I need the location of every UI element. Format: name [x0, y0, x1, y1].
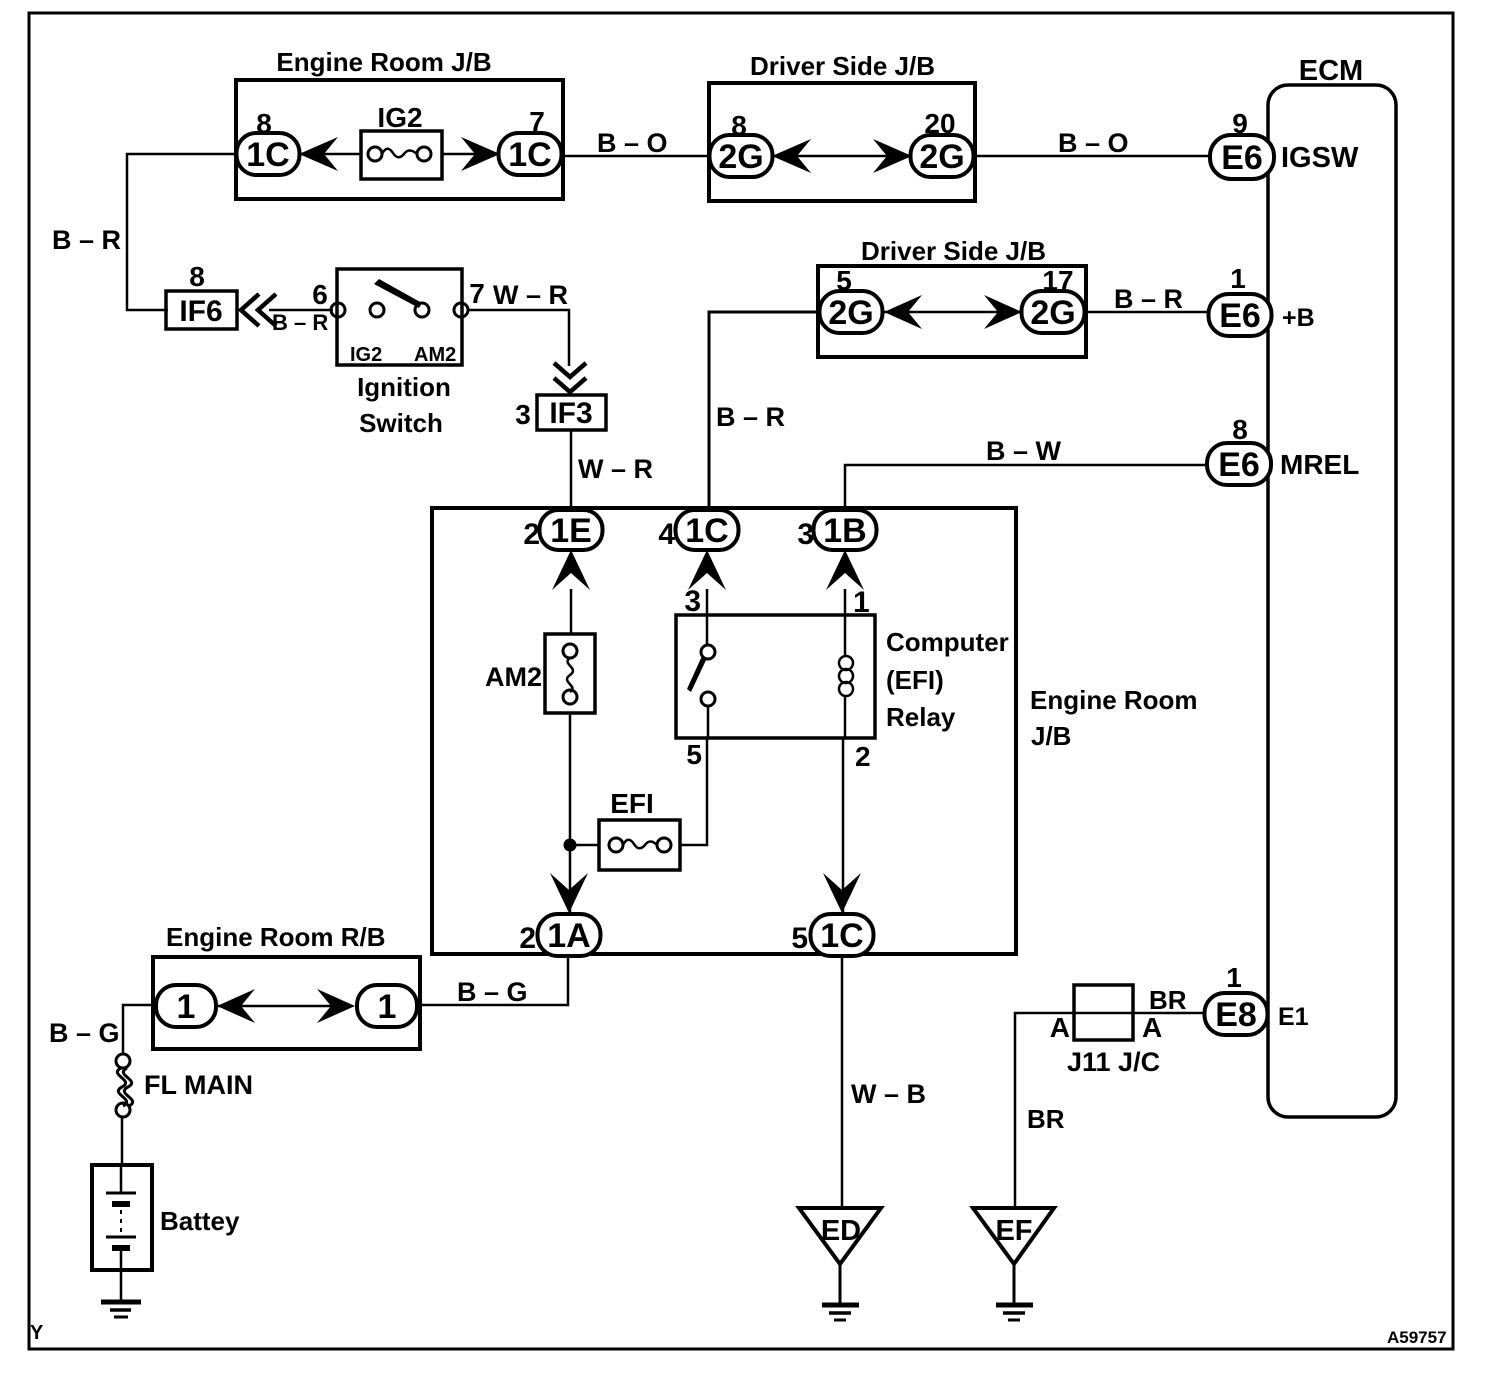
wire: FL MAIN to battery: [121, 1117, 124, 1165]
svg-text:1C: 1C: [246, 136, 289, 174]
ground (battery): [101, 1302, 141, 1317]
svg-text:4: 4: [658, 518, 675, 551]
svg-text:5: 5: [686, 739, 702, 770]
junction connector J11 J/C: [1050, 985, 1187, 1077]
svg-text:5: 5: [836, 265, 852, 296]
connector oval E6 pin 8 (MREL): [1207, 414, 1359, 485]
wire: relay pin 2 down to 1C: [842, 738, 845, 912]
svg-text:1: 1: [1230, 263, 1246, 294]
svg-text:E1: E1: [1278, 1003, 1309, 1031]
arrow (right) R/B: [317, 989, 355, 1023]
arrow (left) R/B: [217, 989, 255, 1023]
connector oval 1 (R/B left): [156, 985, 216, 1027]
svg-text:FL MAIN: FL MAIN: [144, 1070, 253, 1100]
svg-text:B – O: B – O: [597, 128, 668, 158]
svg-text:1A: 1A: [547, 917, 590, 955]
arrow down into 1A: [550, 873, 588, 913]
junction block: Driver Side J/B (middle): [818, 236, 1086, 357]
svg-text:B – W: B – W: [986, 436, 1062, 466]
connector oval E8 pin 1 (E1): [1205, 962, 1309, 1035]
svg-text:Y: Y: [30, 1322, 44, 1344]
junction block: Driver Side J/B (top): [709, 51, 975, 201]
connector oval E6 pin 9 (IGSW): [1210, 108, 1359, 179]
svg-text:2G: 2G: [718, 138, 763, 176]
wire: R/B left oval to FL MAIN: [123, 1005, 157, 1054]
connector oval 1A pin 2: [519, 914, 600, 956]
connector IF3 (terminal 3): [515, 395, 606, 430]
svg-text:EFI: EFI: [610, 788, 654, 819]
svg-text:8: 8: [256, 108, 272, 139]
arrow up into 1E: [552, 550, 590, 590]
wire: EFI to relay pin 5: [680, 738, 707, 845]
junction node (dot): [564, 839, 577, 852]
arrow (left) Driver Side J/B middle: [884, 295, 922, 329]
connector oval 1C pin 4: [658, 510, 738, 551]
connector oval 2G pin 17: [1022, 265, 1085, 333]
svg-text:1B: 1B: [823, 512, 866, 550]
connector IF6 (fuse block terminal 8): [166, 261, 237, 329]
ignition switch: [331, 269, 468, 438]
svg-text:Driver Side J/B: Driver Side J/B: [861, 236, 1046, 266]
svg-text:W – R: W – R: [578, 454, 653, 484]
svg-text:5: 5: [791, 922, 808, 955]
svg-text:Relay: Relay: [886, 702, 956, 732]
svg-text:8: 8: [1232, 414, 1248, 445]
svg-text:Engine Room J/B: Engine Room J/B: [276, 47, 491, 77]
svg-text:2: 2: [519, 922, 536, 955]
svg-text:IG2: IG2: [350, 344, 382, 366]
svg-text:7: 7: [469, 278, 485, 309]
svg-text:BR: BR: [1027, 1104, 1065, 1134]
svg-text:3: 3: [684, 585, 701, 618]
svg-text:2: 2: [855, 741, 871, 772]
connector oval 1E pin 2: [523, 510, 602, 551]
relay: Computer (EFI) Relay: [676, 585, 1009, 772]
junction block: Engine Room J/B (large, middle): [432, 508, 1198, 954]
double chevron arrows at IF6: [241, 294, 276, 326]
svg-text:7: 7: [529, 106, 545, 137]
svg-text:2: 2: [523, 518, 540, 551]
svg-text:1: 1: [177, 988, 196, 1026]
wire W-B: 1C(5) down to ED: [841, 955, 844, 1208]
svg-text:J/B: J/B: [1031, 721, 1071, 751]
svg-text:IF3: IF3: [549, 397, 592, 430]
ground triangle ED: [799, 1208, 881, 1320]
svg-text:J11 J/C: J11 J/C: [1067, 1047, 1160, 1077]
svg-text:2G: 2G: [1030, 294, 1075, 332]
wire between ovals (R/B): [215, 1005, 346, 1008]
svg-text:MREL: MREL: [1280, 449, 1359, 480]
wire between 2G ovals (middle Driver Side J/B): [882, 311, 1021, 314]
ground triangle EF: [973, 1208, 1054, 1320]
svg-text:B – R: B – R: [716, 402, 785, 432]
wire B-W: MREL to relay coil 1B: [845, 465, 1208, 512]
fuse AM2: [485, 634, 595, 713]
arrow down into 1C (bottom): [823, 873, 861, 913]
svg-text:EF: EF: [995, 1215, 1032, 1247]
svg-text:1: 1: [853, 586, 870, 619]
arrow up into 1B: [826, 550, 864, 590]
svg-text:Driver Side J/B: Driver Side J/B: [750, 51, 935, 81]
arrow (left) Driver Side J/B top: [772, 139, 811, 173]
wire B-O: 1C(7) to Driver Side J/B 2G(8): [561, 155, 711, 158]
wire: junction to fuse EFI: [570, 844, 599, 847]
wire BR: EF up to J11 J/C: [1015, 1013, 1074, 1207]
svg-text:W – R: W – R: [493, 280, 568, 310]
svg-text:2G: 2G: [919, 138, 964, 176]
wire: AM2 down to junction, down to 1A: [569, 713, 572, 912]
svg-text:1C: 1C: [508, 136, 551, 174]
svg-text:E6: E6: [1221, 139, 1263, 177]
svg-text:B – G: B – G: [457, 977, 528, 1007]
svg-text:1E: 1E: [550, 512, 592, 550]
svg-text:Switch: Switch: [359, 408, 443, 438]
svg-text:Computer: Computer: [886, 627, 1009, 657]
svg-text:3: 3: [515, 399, 531, 430]
fuse IG2: [361, 102, 442, 179]
svg-text:8: 8: [731, 110, 747, 141]
connector oval 2G pin 8: [710, 110, 773, 177]
wire: 1E down to fuse AM2: [570, 589, 573, 634]
svg-text:20: 20: [924, 108, 955, 139]
svg-text:Engine Room: Engine Room: [1030, 685, 1198, 715]
svg-text:A59757: A59757: [1387, 1328, 1447, 1347]
svg-text:1: 1: [378, 988, 397, 1026]
connector oval 1C pin 7 (Engine Room J/B right): [499, 106, 562, 175]
svg-text:AM2: AM2: [414, 344, 456, 366]
svg-text:+B: +B: [1282, 304, 1315, 332]
svg-text:6: 6: [312, 279, 328, 310]
wire: fuse IG2 leads: [300, 153, 361, 156]
svg-text:ECM: ECM: [1299, 55, 1363, 87]
svg-text:9: 9: [1232, 108, 1248, 139]
junction block: Engine Room J/B (top-left): [236, 47, 563, 199]
ECM block: [1268, 55, 1396, 1117]
svg-text:A: A: [1050, 1012, 1070, 1043]
svg-text:E6: E6: [1218, 446, 1260, 484]
connector oval 2G pin 20: [911, 108, 974, 177]
svg-text:B – R: B – R: [272, 310, 328, 335]
wire: ignition switch 7 down to IF3: [468, 310, 569, 366]
arrow (right) Driver Side J/B middle: [984, 295, 1022, 329]
svg-text:E6: E6: [1219, 297, 1261, 335]
arrow (right) Driver Side J/B top: [873, 139, 912, 173]
svg-text:B – R: B – R: [52, 225, 121, 255]
svg-text:E8: E8: [1215, 996, 1257, 1034]
svg-text:1C: 1C: [685, 512, 728, 550]
wire B-R: Driver Side J/B 2G(5) down to 1C(4): [709, 312, 820, 512]
junction block: Engine Room R/B: [153, 922, 420, 1049]
wire B-G: 1A down/left to Engine Room R/B: [419, 955, 568, 1005]
svg-text:Battey: Battey: [160, 1206, 240, 1236]
svg-text:B – R: B – R: [1114, 284, 1183, 314]
double chevron arrows into IF3: [554, 363, 586, 392]
svg-text:IF6: IF6: [179, 295, 222, 328]
wire B-O: 2G(20) to ECM IGSW: [973, 155, 1212, 158]
wire: IF6 to ignition switch terminal 6: [269, 309, 333, 312]
svg-text:1C: 1C: [820, 917, 863, 955]
arrow (left) inside Engine Room J/B: [299, 137, 338, 171]
svg-text:A: A: [1142, 1012, 1162, 1043]
wire between 2G ovals (top Driver Side J/B): [772, 155, 911, 158]
svg-text:3: 3: [797, 518, 814, 551]
svg-text:ED: ED: [821, 1215, 861, 1247]
wire: IF3 down to 1E: [570, 430, 573, 512]
battery: [92, 1165, 240, 1302]
connector oval 1 (R/B right): [357, 985, 417, 1027]
connector oval 1C pin 8 (Engine Room J/B left): [237, 108, 300, 175]
svg-text:IGSW: IGSW: [1281, 142, 1359, 174]
svg-text:8: 8: [189, 261, 205, 292]
arrow up into 1C: [688, 550, 726, 590]
wire B-R: 2G(17) to ECM +B: [1084, 311, 1210, 314]
connector oval 2G pin 5: [820, 265, 883, 333]
arrow (right) inside Engine Room J/B: [461, 137, 500, 171]
svg-text:Engine Room R/B: Engine Room R/B: [166, 922, 386, 952]
fuse EFI: [599, 788, 680, 870]
svg-text:BR: BR: [1149, 985, 1187, 1015]
fusible link FL MAIN: [116, 1054, 253, 1117]
svg-text:W – B: W – B: [851, 1079, 926, 1109]
svg-text:17: 17: [1042, 265, 1073, 296]
svg-text:1: 1: [1226, 962, 1242, 993]
svg-text:(EFI): (EFI): [886, 665, 944, 695]
wire: J11 to E8: [1133, 1012, 1206, 1015]
connector oval 1C pin 5 (bottom): [791, 914, 873, 956]
svg-text:B – O: B – O: [1058, 128, 1129, 158]
svg-text:2G: 2G: [828, 294, 873, 332]
svg-text:AM2: AM2: [485, 662, 542, 692]
svg-text:IG2: IG2: [377, 102, 422, 133]
connector oval 1B pin 3: [797, 510, 876, 551]
svg-text:B – G: B – G: [49, 1018, 120, 1048]
svg-text:Ignition: Ignition: [357, 372, 451, 402]
connector oval E6 pin 1 (+B): [1209, 263, 1315, 336]
wire: 1C(8) to B-R run (left, down to IF6): [127, 154, 240, 310]
